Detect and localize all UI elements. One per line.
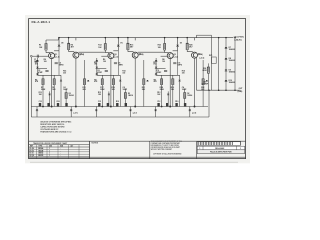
wire Q5 emitter down	[169, 58, 171, 106]
value labels lower	[100, 86, 145, 91]
transistor Q5	[167, 53, 176, 59]
svg-text:1K0: 1K0	[171, 89, 174, 91]
wire R26 to Q6	[187, 38, 194, 52]
drawing number label RE-A-96/2-1	[32, 20, 51, 24]
svg-text:1N914: 1N914	[187, 94, 192, 97]
diode D3b	[119, 75, 121, 106]
svg-text:(+0.7): (+0.7)	[73, 112, 78, 114]
wire vertical x196	[196, 58, 198, 90]
svg-text:PALACE AMPLIFIER PWB: PALACE AMPLIFIER PWB	[210, 151, 232, 154]
value label R14	[63, 70, 66, 75]
svg-text:C12: C12	[157, 101, 160, 103]
svg-text:1K0: 1K0	[153, 64, 156, 66]
bus junctions	[42, 106, 77, 108]
wire Q3 emitter down	[110, 58, 112, 106]
wire rail drop to R12	[105, 37, 107, 44]
svg-text:(+2.5): (+2.5)	[200, 58, 205, 60]
diode to lower bus a	[154, 107, 156, 118]
resistor R10 on bus	[175, 101, 178, 106]
wire vertical x226 diode string	[225, 37, 227, 90]
svg-text:(+54): (+54)	[139, 53, 144, 56]
value labels mid row	[154, 79, 158, 83]
resistor R38	[202, 63, 209, 90]
proprietary notice text	[151, 141, 182, 155]
svg-text:Q1-Q6: Q1-Q6	[29, 148, 34, 150]
svg-text:RY1: RY1	[209, 55, 212, 57]
svg-text:C12: C12	[39, 101, 42, 103]
resistor R28	[161, 75, 163, 106]
svg-text:(+1.2): (+1.2)	[55, 57, 60, 59]
resistor R4	[68, 43, 74, 49]
voltage annotation Q2	[173, 53, 203, 59]
revision strip	[196, 141, 240, 158]
svg-text:1K0: 1K0	[94, 64, 97, 66]
diode D10	[225, 80, 235, 84]
capacitor C12 on bus	[98, 101, 101, 106]
node supply label +56-57VDC	[233, 36, 244, 41]
diode to lower bus b	[189, 107, 191, 118]
diode to lower bus b	[129, 107, 131, 118]
wire mid node	[97, 74, 121, 76]
wire Q1 emitter down	[51, 58, 53, 106]
svg-text:SUB: SUB	[60, 145, 63, 147]
value labels row3	[39, 92, 74, 97]
svg-text:1N4002: 1N4002	[229, 81, 235, 84]
value labels under Q1	[94, 59, 106, 66]
svg-text:1MFD: 1MFD	[118, 65, 124, 67]
wire vertical x218	[218, 37, 220, 90]
bus junctions	[161, 106, 196, 108]
wire D5 node to Q5	[173, 47, 178, 51]
svg-text:(+54): (+54)	[80, 53, 85, 56]
capacitor C6	[97, 70, 108, 74]
resistor R9	[53, 75, 55, 106]
voltage annotation Q2	[114, 53, 144, 59]
diode D3	[117, 42, 123, 46]
svg-text:220K: 220K	[100, 89, 105, 91]
svg-text:2K2: 2K2	[142, 89, 145, 91]
transistor Q2	[73, 52, 82, 58]
wire diode column down	[58, 51, 60, 76]
wire Q4 emitter down	[134, 58, 136, 107]
svg-text:1K0: 1K0	[52, 89, 55, 91]
svg-text:TYPE: TYPE	[39, 145, 43, 147]
value labels row3	[157, 92, 192, 97]
schematic frame border	[29, 19, 246, 159]
svg-text:220K: 220K	[41, 89, 46, 91]
voltage note below bus	[133, 112, 138, 114]
transistor Q6	[192, 52, 201, 58]
svg-text:WITHOUT WRITTEN CONSENT.: WITHOUT WRITTEN CONSENT.	[151, 149, 173, 151]
wire R15 to Q4	[128, 38, 135, 52]
svg-text:C12: C12	[98, 101, 101, 103]
svg-text:2200MF: 2200MF	[201, 83, 208, 85]
resistor R30	[172, 75, 174, 106]
svg-text:1K0: 1K0	[112, 89, 115, 91]
wire feedback vertical	[208, 90, 210, 117]
wire rail drop to D1	[58, 37, 60, 45]
diode D9	[225, 70, 235, 74]
wire +56V top supply rail	[59, 37, 234, 39]
svg-text:THIS DOCUMENT IS THE PROPERTY: THIS DOCUMENT IS THE PROPERTY OF THE	[151, 141, 182, 143]
diode stack D4	[96, 58, 99, 75]
capacitor C13 on bus	[166, 103, 168, 107]
svg-text:0R22: 0R22	[202, 70, 206, 72]
component U1 box	[209, 55, 216, 64]
svg-text:R10: R10	[175, 101, 178, 103]
title row PALACE AMPLIFIER	[197, 150, 244, 154]
diode D5	[176, 42, 182, 46]
wire R12 to Q3 collector	[105, 50, 109, 53]
capacitor C8	[114, 63, 124, 67]
resistor R19	[112, 75, 114, 106]
svg-text:NOTES: NOTES	[92, 143, 99, 145]
svg-text:100: 100	[44, 61, 47, 63]
diode D mid	[167, 91, 169, 106]
notes text	[40, 122, 72, 134]
capacitor C9	[157, 70, 168, 74]
diode D mid	[49, 91, 51, 106]
resistor R12	[98, 44, 106, 51]
wire Q6 emitter down	[194, 58, 196, 107]
svg-text:4K7: 4K7	[189, 46, 192, 49]
svg-text:USE: USE	[49, 145, 52, 147]
diode D8	[225, 58, 235, 62]
diode stack D2	[36, 58, 39, 75]
resistor R10 on bus	[57, 101, 60, 106]
svg-text:1N914: 1N914	[128, 94, 133, 97]
svg-text:(+1.2): (+1.2)	[173, 57, 178, 59]
bottom inner line	[29, 156, 246, 158]
wire mid node 2	[38, 67, 48, 69]
svg-text:Q7,Q8: Q7,Q8	[29, 155, 34, 157]
wire input to Q1 base	[32, 55, 42, 57]
wire interstage coupling	[138, 51, 165, 53]
svg-text:D7-10: D7-10	[29, 153, 33, 155]
svg-text:RE-A-96/2-1: RE-A-96/2-1	[32, 20, 51, 24]
svg-text:1MFD: 1MFD	[177, 65, 183, 67]
wire mid node	[156, 74, 180, 76]
svg-text:1K0: 1K0	[35, 64, 38, 66]
wire rail to R1 bend	[46, 38, 59, 44]
node input terminal	[30, 55, 32, 57]
capacitor C14 on bus	[184, 103, 186, 107]
diode stack D6	[155, 58, 158, 75]
wire output line	[197, 89, 241, 91]
capacitor C14 on bus	[65, 103, 67, 107]
diode D1b	[60, 75, 62, 106]
svg-text:2K2: 2K2	[83, 89, 86, 91]
notes cell	[90, 141, 150, 158]
svg-text:2N3055: 2N3055	[38, 155, 43, 157]
svg-text:4K7: 4K7	[71, 46, 74, 49]
value label R14	[182, 70, 185, 75]
resistor R23	[158, 44, 166, 51]
wire D1 node to Q1	[54, 47, 59, 51]
svg-text:TRANSISTORS ARE 2N3904 X-Y-Z: TRANSISTORS ARE 2N3904 X-Y-Z	[40, 130, 72, 133]
resistor R1	[39, 44, 47, 51]
wire diode column down	[177, 51, 179, 76]
wire base feed Q1	[42, 55, 49, 57]
label +2.5	[200, 58, 205, 60]
svg-text:330: 330	[122, 73, 125, 75]
value labels under Q1	[153, 59, 165, 66]
title block divider line	[29, 140, 246, 142]
diode D1	[58, 42, 64, 46]
wire diode column down	[117, 51, 119, 76]
wire base feed Q5	[161, 55, 168, 57]
bus junctions	[101, 106, 136, 108]
wire bus upper	[31, 106, 208, 108]
complement chart	[29, 141, 90, 158]
resistor R17	[101, 75, 103, 106]
value labels under Q1	[35, 59, 47, 66]
wire mid node 2	[156, 67, 166, 69]
svg-text:R10: R10	[116, 101, 119, 103]
value labels lower	[160, 86, 205, 91]
svg-text:RE-A-9682: RE-A-9682	[215, 147, 224, 150]
wire rail drop to R26	[186, 37, 188, 43]
svg-text:100: 100	[103, 61, 106, 63]
wire R23 to Q5 collector	[165, 50, 169, 53]
svg-text:1N4002: 1N4002	[229, 59, 235, 62]
value labels lower	[41, 86, 86, 91]
value labels mid row	[94, 79, 98, 83]
resistor R11	[83, 60, 89, 107]
diode D5b	[179, 75, 181, 106]
resistor R26	[186, 43, 192, 49]
transistor Q4	[132, 52, 141, 58]
capacitor C12 on bus	[39, 101, 42, 106]
scanned sheet background	[25, 15, 250, 163]
wire mid node	[38, 74, 62, 76]
diode D7	[225, 47, 235, 51]
svg-text:(+0.7): (+0.7)	[133, 112, 138, 114]
wire interstage coupling	[79, 51, 106, 53]
svg-text:330: 330	[63, 73, 66, 75]
wire Q2 emitter down	[75, 58, 77, 107]
svg-text:(0dB): (0dB)	[238, 91, 243, 93]
voltage note below bus	[73, 112, 78, 114]
value labels row3	[98, 92, 133, 97]
svg-text:1N4002: 1N4002	[229, 70, 235, 73]
svg-text:(+0.7): (+0.7)	[192, 112, 197, 114]
wire D3 node to Q3	[113, 47, 118, 51]
svg-text:330: 330	[182, 73, 185, 75]
capacitor C13 on bus	[107, 103, 109, 107]
svg-text:(+1.2): (+1.2)	[114, 57, 119, 59]
resistor R32	[202, 60, 208, 107]
capacitor C1 input	[34, 55, 38, 64]
svg-text:1MFD: 1MFD	[59, 65, 65, 67]
diode to lower bus a	[95, 107, 97, 118]
voltage annotation Q2	[55, 53, 85, 59]
capacitor C11	[173, 63, 183, 67]
wire rail drop to R4	[68, 37, 70, 43]
wire R1 to Q1 collector	[46, 50, 50, 53]
capacitor C5	[55, 63, 65, 67]
resistor mid2	[184, 89, 186, 107]
capacitor C14 on bus	[125, 103, 127, 107]
resistor mid2	[124, 89, 126, 107]
svg-text:D1-D6: D1-D6	[29, 150, 34, 152]
diode D mid	[108, 91, 110, 106]
resistor mid2	[65, 89, 67, 107]
svg-text:1N914: 1N914	[69, 94, 74, 97]
capacitor C13 on bus	[47, 103, 49, 107]
diode to lower bus a	[36, 107, 38, 118]
svg-text:220K: 220K	[160, 89, 165, 91]
svg-text:R10: R10	[57, 101, 60, 103]
wire rail drop to D5	[177, 37, 179, 45]
value label R14	[122, 70, 125, 75]
capacitor C12 on bus	[157, 101, 160, 106]
resistor R21	[143, 60, 149, 107]
node output label	[238, 88, 244, 93]
voltage note below bus	[192, 112, 197, 114]
wire left rail down	[30, 57, 32, 117]
wire R4 to Q2	[69, 38, 76, 52]
wire mid node 2	[97, 67, 107, 69]
wire vertical x235	[234, 37, 236, 90]
wire rail corner drop x211	[197, 35, 212, 90]
wire bus lower feedback return	[31, 116, 209, 118]
svg-text:4K7: 4K7	[130, 46, 133, 49]
wire rail drop to D3	[118, 37, 120, 45]
svg-text:1N4002: 1N4002	[229, 48, 235, 51]
resistor R10 on bus	[116, 101, 119, 106]
svg-text:REF: REF	[30, 145, 33, 147]
wire base feed Q3	[101, 55, 108, 57]
resistor R7	[42, 75, 44, 106]
svg-text:(+54.4V): (+54.4V)	[234, 38, 242, 41]
capacitor C15 labels	[201, 81, 208, 85]
wire rail drop to R23	[164, 37, 166, 44]
svg-text:100: 100	[162, 61, 165, 63]
value labels mid row	[35, 79, 39, 83]
svg-text:(+54): (+54)	[198, 53, 203, 56]
wire rail drop to R15	[127, 37, 128, 43]
drawing number row	[197, 146, 244, 150]
transistor Q3	[108, 53, 117, 59]
capacitor C2	[38, 70, 49, 74]
transistor Q1	[49, 53, 58, 59]
resistor R15	[127, 43, 133, 49]
diode to lower bus b	[70, 107, 72, 118]
